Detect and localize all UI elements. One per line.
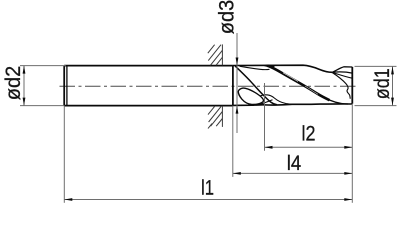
- shank body d2: [64, 66, 233, 106]
- flute inner curve C: [261, 95, 293, 104]
- helix land dark band: [268, 66, 330, 101]
- extension line l4 left / shank end extended: [232, 106, 234, 177]
- dim od3 arrow bottom: [236, 106, 239, 114]
- helix land knot: [264, 65, 275, 69]
- shank chamfer line: [66, 66, 68, 106]
- dim od2 dimension line: [23, 66, 25, 106]
- svg-text:ød3: ød3: [216, 0, 239, 34]
- tip fan line 3: [332, 72, 352, 78]
- dim l4 line: [233, 172, 352, 174]
- tool right edge: [351, 67, 353, 104]
- dim od2 arrows: [23, 66, 26, 74]
- centerline: [60, 85, 359, 87]
- tip leaf lower edge: [332, 72, 352, 73]
- dim l2 line: [265, 146, 353, 148]
- dim od3 arrow top: [236, 58, 239, 66]
- dim od1 arrows: [391, 66, 394, 74]
- flute section outline top: [233, 65, 332, 72]
- svg-text:l1: l1: [201, 177, 214, 200]
- svg-text:ød2: ød2: [2, 66, 25, 101]
- flute scallop tail: [259, 100, 273, 105]
- tip leaf upper edge: [332, 67, 352, 73]
- svg-text:l2: l2: [301, 122, 315, 145]
- helix land lead-in line: [240, 66, 270, 69]
- helix land runout into bottom: [329, 100, 348, 104]
- dim od3 leader line: [236, 33, 238, 133]
- extension line right: [351, 104, 353, 203]
- svg-text:l4: l4: [287, 152, 302, 175]
- extension line l1 left: [63, 106, 65, 203]
- dim od1 dimension line: [392, 66, 394, 105]
- clamp hatch bottom: [208, 106, 222, 129]
- land double-line white slivers: [283, 73, 298, 82]
- flute scallop ellipse: [238, 88, 263, 104]
- dim od2 extension lines: [20, 66, 66, 106]
- dim od1 extension lines: [355, 66, 397, 105]
- flute section outline bottom: [233, 104, 352, 106]
- flute runout sweep curve: [235, 66, 277, 105]
- extension line l2 left: [264, 83, 266, 151]
- tip fan line 4 with end gash hook: [332, 73, 350, 99]
- svg-text:ød1: ød1: [371, 68, 394, 99]
- dim l1 line: [64, 199, 352, 201]
- clamp hatch top: [208, 44, 223, 65]
